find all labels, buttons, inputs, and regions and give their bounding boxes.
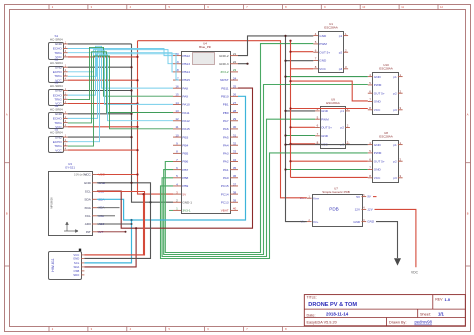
svg-text:GND: GND bbox=[321, 134, 329, 138]
wire U8 VCC to ESC VCC bus bbox=[291, 176, 368, 178]
svg-text:OUT 5+: OUT 5+ bbox=[374, 159, 385, 163]
svg-text:HW-611: HW-611 bbox=[51, 258, 55, 272]
svg-text:HC-SR04: HC-SR04 bbox=[50, 84, 63, 88]
ESC motor driver U1 ESC28AA bbox=[313, 22, 348, 72]
ultrasonic sensor S2 HC-SR04 bbox=[49, 57, 68, 82]
svg-text:PA12: PA12 bbox=[182, 119, 190, 123]
wire VCC bus to PDB Vin+ (top feed) bbox=[138, 41, 307, 198]
wire U4 PB8 to U9 PWM bbox=[162, 119, 315, 256]
wire U8 GND(7) to ESC GND bus bbox=[286, 169, 368, 171]
svg-text:33: 33 bbox=[233, 150, 237, 154]
svg-text:PA3: PA3 bbox=[223, 152, 229, 156]
svg-text:ESC28AA: ESC28AA bbox=[379, 135, 393, 139]
wire S4 TRIG to U4 PA11 bbox=[68, 52, 173, 123]
svg-text:DRONE PV & TOM: DRONE PV & TOM bbox=[308, 302, 357, 308]
svg-text:ESC28AA: ESC28AA bbox=[379, 67, 393, 71]
svg-text:PDB: PDB bbox=[329, 207, 338, 212]
svg-text:Simple Generic PDB: Simple Generic PDB bbox=[322, 190, 350, 194]
wire PDB GND to ground bbox=[376, 222, 398, 258]
svg-text:PA4: PA4 bbox=[223, 143, 229, 147]
svg-text:SCL: SCL bbox=[85, 190, 91, 194]
wire PDB 12V to VDC bbox=[375, 209, 416, 267]
svg-text:1.0: 1.0 bbox=[445, 297, 451, 302]
svg-text:PA9: PA9 bbox=[182, 95, 188, 99]
svg-text:GY-521: GY-521 bbox=[65, 165, 75, 169]
svg-text:16: 16 bbox=[175, 84, 179, 88]
svg-text:PB13: PB13 bbox=[182, 62, 190, 66]
svg-text:PA15: PA15 bbox=[182, 127, 190, 131]
wire GY-521 SCL to HW-611 SCL bbox=[84, 192, 144, 255]
svg-text:34: 34 bbox=[233, 158, 237, 162]
svg-text:GND: GND bbox=[73, 256, 79, 260]
wire S4 ECHO to U4 PA10 bbox=[68, 51, 173, 119]
wire S3 TRIG to U4 PA9 bbox=[68, 47, 173, 99]
compass module HW-611 HMC5883 bbox=[49, 249, 85, 280]
junction U8 OUT bbox=[289, 160, 291, 162]
GND bus (ESC) wire bbox=[286, 36, 307, 222]
svg-text:PB1: PB1 bbox=[223, 103, 229, 107]
wire S4 GND to GND bus bbox=[68, 113, 132, 115]
svg-text:12V: 12V bbox=[355, 208, 361, 212]
svg-text:GND-2: GND-2 bbox=[219, 54, 229, 58]
junction ESC VCC bus top bbox=[289, 40, 291, 42]
wire S1 GND to GND bus bbox=[68, 43, 132, 45]
svg-text:PWM: PWM bbox=[374, 151, 382, 155]
svg-text:25: 25 bbox=[233, 84, 237, 88]
junction U9 GND7 bbox=[284, 134, 286, 136]
svg-text:GND: GND bbox=[374, 168, 382, 172]
svg-text:B: B bbox=[6, 212, 8, 216]
junction VCC bus S2 bbox=[136, 79, 138, 81]
svg-text:Vin+: Vin+ bbox=[313, 196, 319, 200]
svg-text:p1: p1 bbox=[393, 75, 397, 79]
svg-text:XDA: XDA bbox=[84, 206, 91, 210]
svg-text:14: 14 bbox=[175, 101, 179, 105]
svg-text:HC-SR04: HC-SR04 bbox=[50, 107, 63, 111]
wire S1 TRIG to U4 PB14 bbox=[68, 53, 173, 72]
svg-text:30: 30 bbox=[233, 125, 237, 129]
svg-text:PA8: PA8 bbox=[182, 86, 188, 90]
svg-text:OUT 5+: OUT 5+ bbox=[374, 91, 385, 95]
svg-text:PA2: PA2 bbox=[223, 160, 229, 164]
svg-text:PWM: PWM bbox=[321, 117, 329, 121]
svg-text:p1: p1 bbox=[393, 143, 397, 147]
svg-text:3V3-1: 3V3-1 bbox=[182, 209, 191, 213]
junction VCC bus S4 bbox=[136, 126, 138, 128]
svg-text:GND-1: GND-1 bbox=[182, 200, 192, 204]
svg-text:VCC: VCC bbox=[374, 108, 381, 112]
svg-text:GND: GND bbox=[55, 112, 63, 116]
svg-text:PB9: PB9 bbox=[182, 184, 188, 188]
junction GND bus S2 bbox=[130, 66, 132, 68]
wire U4 PB9 to U8 PWM bbox=[161, 153, 368, 259]
svg-text:40: 40 bbox=[233, 207, 237, 211]
svg-text:p2: p2 bbox=[393, 159, 397, 163]
wire GY-521 GND to HW-611 GND bbox=[84, 183, 150, 259]
svg-text:3V3-2: 3V3-2 bbox=[220, 70, 229, 74]
wire U4 PB6 to U1 PWM bbox=[165, 44, 313, 253]
title block bbox=[304, 295, 465, 326]
svg-text:PB3: PB3 bbox=[182, 135, 188, 139]
svg-text:PB5: PB5 bbox=[182, 152, 188, 156]
wire S4 VCC to VCC bus bbox=[68, 126, 138, 128]
svg-text:p2: p2 bbox=[341, 126, 345, 130]
wire GY-521 XCL stub bbox=[97, 215, 115, 217]
svg-text:GND: GND bbox=[353, 220, 361, 224]
svg-text:p3: p3 bbox=[393, 176, 397, 180]
svg-text:27: 27 bbox=[233, 101, 237, 105]
wire 5V branch to HW-611 VCC bbox=[84, 194, 143, 255]
junction GY-521 GND to GND bus bbox=[130, 182, 132, 184]
wire U1 VCC to ESC VCC bus bbox=[291, 68, 314, 70]
svg-text:p3: p3 bbox=[339, 67, 343, 71]
junction GND bus S4 bbox=[130, 113, 132, 115]
svg-text:p2: p2 bbox=[339, 50, 343, 54]
svg-text:PA10: PA10 bbox=[182, 103, 190, 107]
ultrasonic sensor S5 HC-SR04 bbox=[49, 127, 68, 152]
svg-text:p3: p3 bbox=[393, 108, 397, 112]
svg-text:p1: p1 bbox=[339, 34, 343, 38]
svg-text:Blue_Pill: Blue_Pill bbox=[199, 45, 211, 49]
wire U4 GND-3 join bbox=[238, 63, 248, 65]
junction ESC VCC mid bbox=[289, 80, 291, 82]
svg-text:31: 31 bbox=[233, 133, 237, 137]
svg-text:GND: GND bbox=[374, 100, 382, 104]
junction U1 GND7 bbox=[284, 60, 286, 62]
svg-text:22: 22 bbox=[233, 60, 237, 64]
junction U8 GND7 bbox=[284, 168, 286, 170]
svg-text:AD0: AD0 bbox=[85, 222, 91, 226]
svg-text:11: 11 bbox=[175, 125, 178, 129]
svg-text:PB7: PB7 bbox=[182, 168, 188, 172]
junction U1 OUT bbox=[289, 51, 291, 53]
wire S2 GND to GND bus bbox=[68, 66, 132, 68]
ESC motor driver U10 ESC28AA bbox=[368, 63, 403, 114]
wire PDB 5V stub bbox=[373, 196, 377, 198]
svg-text:29: 29 bbox=[233, 117, 237, 121]
svg-text:SDA: SDA bbox=[84, 198, 91, 202]
wire S1 ECHO to U4 PB12 bbox=[68, 49, 173, 56]
microcontroller U4 Blue_Pill STM32 bbox=[173, 41, 238, 213]
junction ESC GND bus top bbox=[284, 35, 286, 37]
svg-text:28: 28 bbox=[233, 109, 237, 113]
svg-text:INT: INT bbox=[86, 230, 91, 234]
svg-text:PB4: PB4 bbox=[182, 143, 188, 147]
svg-text:PA5: PA5 bbox=[223, 135, 229, 139]
svg-text:B: B bbox=[467, 212, 469, 216]
wire U9 VCC to ESC VCC bus bbox=[291, 143, 316, 145]
svg-text:MPU6050: MPU6050 bbox=[50, 197, 54, 209]
wire S2 TRIG to U4 PB15 bbox=[68, 54, 179, 80]
svg-text:PA11: PA11 bbox=[182, 111, 189, 115]
svg-text:HC-SR04: HC-SR04 bbox=[50, 38, 63, 42]
wire U4 PB10 to GY-521 SDA (I2C SDA) bbox=[97, 96, 246, 220]
svg-text:GND: GND bbox=[319, 59, 327, 63]
junction GND-3 bbox=[246, 63, 248, 65]
power distribution board U7 Simple Generic PDB bbox=[300, 187, 375, 227]
wire S5 TRIG to U4 PA15 bbox=[68, 56, 173, 146]
ESC motor driver U9 ESC28AA bbox=[315, 98, 350, 149]
svg-text:PB8: PB8 bbox=[182, 176, 188, 180]
svg-text:PC15: PC15 bbox=[221, 184, 229, 188]
wire S5 GND to GND bus bbox=[68, 136, 132, 138]
svg-text:23: 23 bbox=[233, 68, 237, 72]
junction VCC bus S3 bbox=[136, 102, 138, 104]
wire U4 GND-2 to U1 GND bbox=[238, 36, 313, 56]
IMU module U3 GY-521 MPU6050 bbox=[49, 162, 106, 236]
svg-text:NRST: NRST bbox=[220, 78, 229, 82]
svg-text:HC-SR04: HC-SR04 bbox=[50, 131, 63, 135]
wire HW-611 SDA to I2C SDA bbox=[84, 220, 131, 263]
ultrasonic sensor S3 HC-SR04 bbox=[49, 81, 68, 106]
svg-text:GND: GND bbox=[84, 181, 92, 185]
junction U9 OUT bbox=[289, 126, 291, 128]
svg-text:38: 38 bbox=[233, 190, 237, 194]
svg-text:p1: p1 bbox=[341, 109, 345, 113]
svg-text:PA6: PA6 bbox=[223, 127, 229, 131]
svg-text:35: 35 bbox=[233, 166, 237, 170]
svg-text:REV: REV bbox=[435, 298, 443, 302]
svg-text:GND: GND bbox=[374, 75, 382, 79]
svg-text:TITLE:: TITLE: bbox=[307, 296, 317, 300]
wire SCL branch to HW-611 SCL bbox=[84, 228, 136, 267]
svg-text:PWM: PWM bbox=[319, 42, 327, 46]
svg-text:PWM: PWM bbox=[374, 83, 382, 87]
svg-text:32: 32 bbox=[233, 142, 237, 146]
svg-text:ESC28AA: ESC28AA bbox=[324, 26, 338, 30]
svg-text:36: 36 bbox=[233, 174, 237, 178]
svg-text:PC14: PC14 bbox=[221, 192, 229, 196]
wire U8 GND(4) to ESC GND bus bbox=[286, 144, 368, 146]
junction U8 GND4 bbox=[284, 144, 286, 146]
svg-text:Vin-: Vin- bbox=[313, 220, 318, 224]
junction U10 GND4 bbox=[284, 76, 286, 78]
node VDC label bbox=[411, 271, 419, 275]
svg-text:39: 39 bbox=[233, 199, 237, 203]
wire S5 VCC to VCC bus bbox=[68, 149, 138, 151]
wire U1 OUT 5+ to ESC VCC bus bbox=[291, 51, 314, 53]
svg-text:HC-SR04: HC-SR04 bbox=[50, 61, 63, 65]
svg-text:GND: GND bbox=[55, 135, 63, 139]
wire S3 VCC to VCC bus bbox=[68, 103, 138, 105]
junction 5V branch bbox=[142, 193, 144, 195]
junction GND-1 crossing bbox=[149, 201, 151, 203]
svg-text:GND: GND bbox=[55, 65, 63, 69]
svg-text:EasyEDA V5.9.20: EasyEDA V5.9.20 bbox=[307, 321, 337, 325]
svg-text:GND: GND bbox=[374, 143, 382, 147]
svg-text:PB6: PB6 bbox=[182, 160, 188, 164]
svg-text:GND-3: GND-3 bbox=[219, 62, 229, 66]
svg-text:VCC: VCC bbox=[374, 176, 381, 180]
junction U10 VCC bbox=[289, 107, 291, 109]
svg-text:24: 24 bbox=[233, 76, 237, 80]
wire GY-521 AD0 to SDA riser bbox=[97, 223, 133, 225]
svg-text:PA0: PA0 bbox=[223, 176, 229, 180]
svg-text:VBAT: VBAT bbox=[221, 209, 229, 213]
svg-text:PA7: PA7 bbox=[223, 119, 229, 123]
wire S5 ECHO to U4 PA12 bbox=[68, 55, 173, 142]
svg-text:XCL: XCL bbox=[85, 214, 91, 218]
wire U9 OUT 5+ to ESC VCC bus bbox=[291, 126, 316, 128]
wire U9 GND(4) to ESC GND bus bbox=[286, 110, 316, 112]
junction GY-521 VCC bbox=[136, 173, 138, 175]
svg-text:PB14: PB14 bbox=[182, 70, 190, 74]
VCC bus (ESC) wire bbox=[290, 41, 292, 178]
wire U1 OUT 5+ junction bbox=[291, 81, 368, 101]
wire U10 VCC to ESC VCC bus bbox=[291, 108, 368, 110]
wire GY-521 VCC to VCC bus bbox=[97, 174, 138, 176]
svg-text:15: 15 bbox=[175, 93, 179, 97]
wire S1 VCC to VCC bus bbox=[68, 56, 138, 58]
svg-text:PC13: PC13 bbox=[221, 200, 229, 204]
svg-text:ESC28AA: ESC28AA bbox=[326, 101, 340, 105]
svg-text:PB0: PB0 bbox=[223, 111, 229, 115]
ultrasonic sensor S1 HC-SR04 bbox=[49, 34, 68, 59]
svg-text:GND: GND bbox=[367, 220, 375, 224]
svg-text:VCC: VCC bbox=[84, 173, 91, 177]
junction GND bus S3 bbox=[130, 89, 132, 91]
wire S3 GND to GND bus bbox=[68, 90, 132, 92]
wire U4 PB7 to U10 PWM bbox=[164, 85, 368, 255]
junction GND bus S5 bbox=[130, 136, 132, 138]
wire S2 VCC to VCC bus bbox=[68, 79, 138, 81]
svg-text:OUT 5+: OUT 5+ bbox=[319, 50, 330, 54]
wire U10 GND(4) to ESC GND bus bbox=[286, 76, 368, 78]
svg-text:37: 37 bbox=[233, 182, 237, 186]
svg-text:VCC: VCC bbox=[319, 67, 326, 71]
junction U9 VCC bbox=[289, 143, 291, 145]
svg-text:PB12: PB12 bbox=[182, 54, 190, 58]
junction VCC bus S5 bbox=[136, 149, 138, 151]
svg-text:VDC: VDC bbox=[411, 271, 419, 275]
svg-text:GND: GND bbox=[319, 34, 327, 38]
svg-text:A: A bbox=[6, 113, 8, 117]
wire GY-521 SCL to U4 PB11 (I2C SCL) bbox=[97, 88, 253, 228]
svg-text:21: 21 bbox=[233, 52, 237, 56]
wire GY-521 INT stub bbox=[97, 231, 127, 233]
junction U9 GND4 bbox=[284, 110, 286, 112]
svg-text:GND: GND bbox=[55, 42, 63, 46]
svg-text:PB10: PB10 bbox=[221, 95, 229, 99]
svg-text:PB15: PB15 bbox=[182, 78, 190, 82]
wire GY-521 XDA stub bbox=[97, 207, 120, 209]
ground symbol bbox=[394, 258, 401, 265]
svg-text:Date:: Date: bbox=[307, 313, 316, 317]
svg-text:GND: GND bbox=[55, 89, 63, 93]
svg-text:1/1: 1/1 bbox=[438, 312, 444, 317]
ultrasonic sensor S4 HC-SR04 bbox=[49, 104, 68, 129]
GND bus (sensors) wire bbox=[132, 44, 174, 202]
wire S2 ECHO to U4 PB13 bbox=[68, 50, 173, 72]
VCC bus (sensors) wire bbox=[138, 41, 174, 194]
wire U4 3V3-1 pin mark bbox=[169, 209, 173, 211]
wire U8 OUT 5+ to ESC VCC bus bbox=[291, 160, 368, 162]
svg-text:OUT 5+: OUT 5+ bbox=[321, 126, 332, 130]
junction SCL branch bbox=[135, 227, 137, 229]
ESC motor driver U8 ESC28AA bbox=[368, 131, 403, 182]
svg-text:10: 10 bbox=[175, 133, 179, 137]
svg-text:p2: p2 bbox=[393, 91, 397, 95]
junction VCC bus S1 bbox=[136, 56, 138, 58]
svg-text:A: A bbox=[467, 113, 469, 117]
svg-text:13: 13 bbox=[175, 109, 179, 113]
wire U1 GND(7) to ESC GND bus bbox=[286, 60, 314, 62]
svg-text:12: 12 bbox=[175, 117, 179, 121]
svg-text:SDO: SDO bbox=[73, 273, 80, 277]
svg-text:PA1: PA1 bbox=[223, 168, 229, 172]
junction I2C SDA bbox=[130, 219, 132, 221]
svg-text:Sheet:: Sheet: bbox=[420, 312, 431, 316]
svg-text:12V: 12V bbox=[367, 207, 373, 211]
svg-text:Drawn By:: Drawn By: bbox=[389, 321, 407, 325]
svg-text:2018-11-14: 2018-11-14 bbox=[326, 312, 349, 317]
svg-text:26: 26 bbox=[233, 93, 237, 97]
svg-text:pedrov98: pedrov98 bbox=[415, 320, 433, 325]
svg-text:PB11: PB11 bbox=[221, 86, 229, 90]
wire S3 ECHO to U4 PA8 bbox=[68, 46, 173, 95]
wire U9 GND(7) to ESC GND bus bbox=[286, 135, 316, 137]
svg-text:GND: GND bbox=[321, 109, 329, 113]
svg-text:VCC: VCC bbox=[55, 148, 62, 152]
